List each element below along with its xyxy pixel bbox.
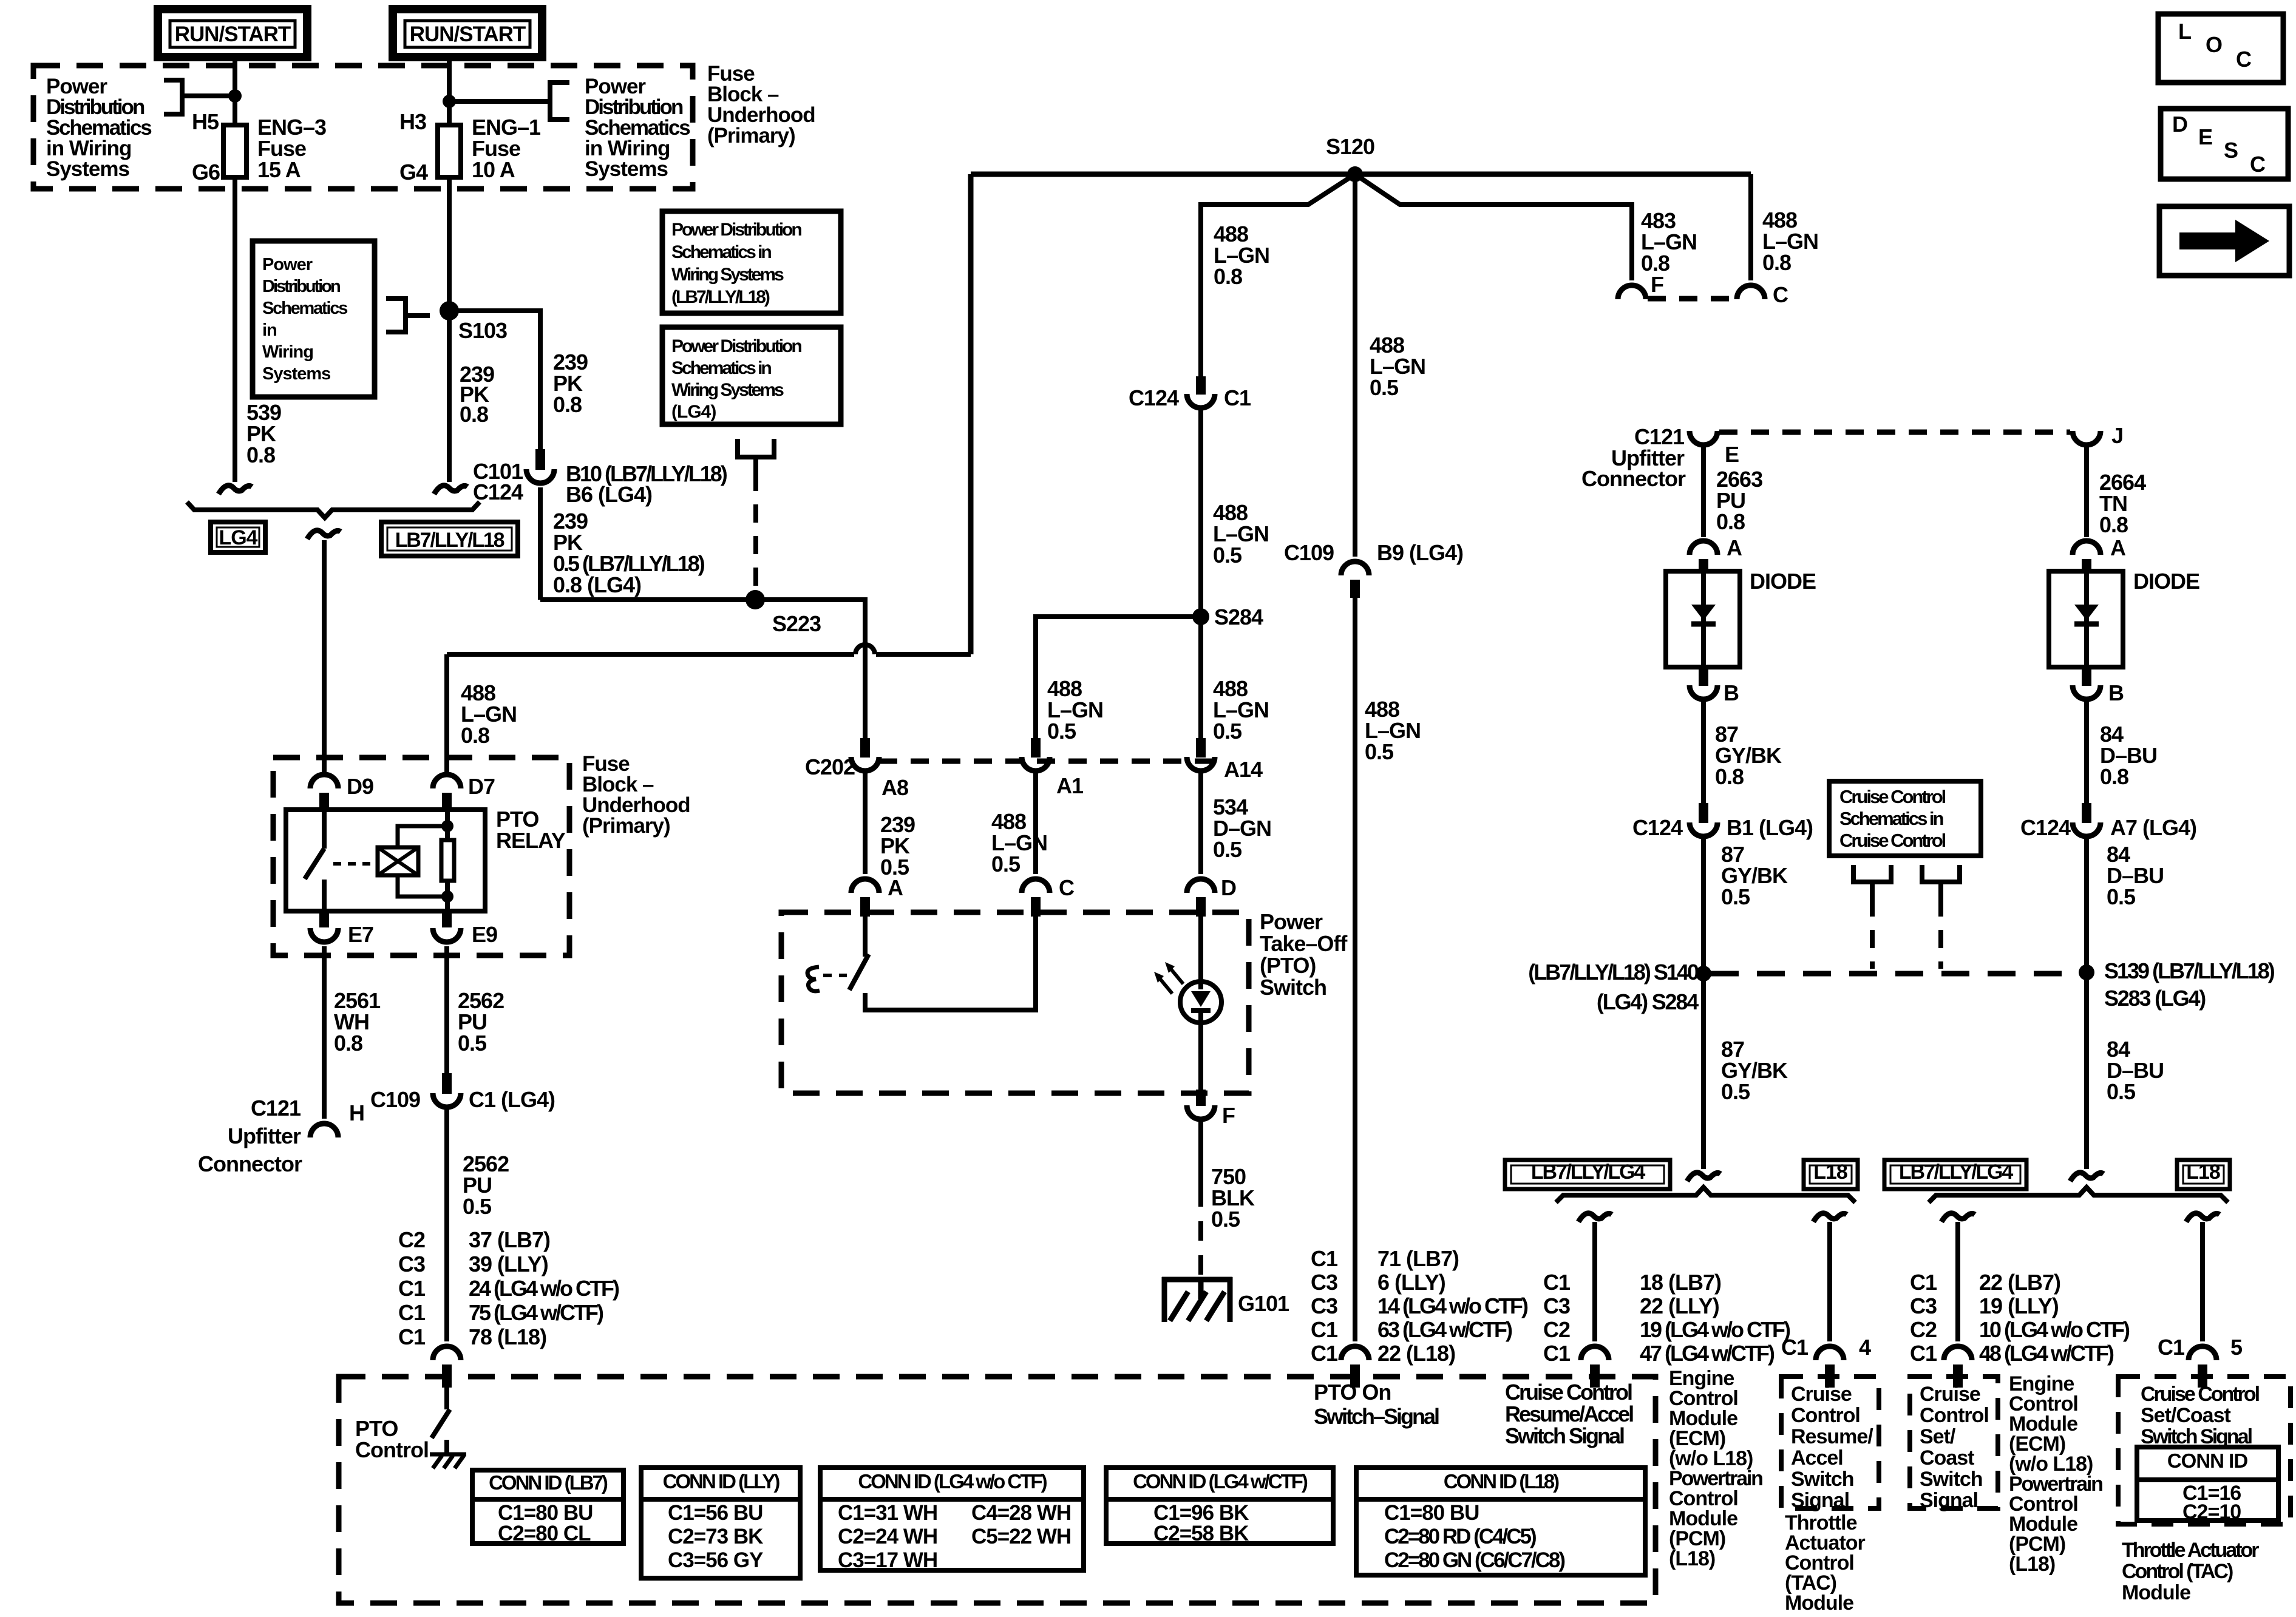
svg-text:C1 (LG4): C1 (LG4) xyxy=(469,1087,555,1112)
svg-text:Connector: Connector xyxy=(1581,466,1686,491)
svg-text:G6: G6 xyxy=(192,160,220,185)
svg-text:C2=10: C2=10 xyxy=(2182,1500,2241,1524)
wire set/coast to TAC pin xyxy=(2200,1222,2205,1341)
wire A1 to pin C xyxy=(1033,769,1038,874)
table CONN ID (LG4 w/CTF) xyxy=(1106,1468,1333,1544)
wire S120 to C124 C1 xyxy=(1201,174,1355,376)
svg-text:C2=80 GN (C6/C7/C8): C2=80 GN (C6/C7/C8) xyxy=(1384,1548,1564,1572)
svg-text:A14: A14 xyxy=(1224,757,1263,782)
svg-text:LB7/LLY/L18: LB7/LLY/L18 xyxy=(395,529,504,552)
svg-text:B6 (LG4): B6 (LG4) xyxy=(566,482,652,507)
svg-text:C: C xyxy=(2250,152,2266,177)
svg-text:RUN/START: RUN/START xyxy=(175,22,291,46)
svg-text:Cruise: Cruise xyxy=(1920,1383,1980,1406)
svg-text:78 (L18): 78 (L18) xyxy=(469,1324,546,1349)
svg-text:CONN ID: CONN ID xyxy=(2167,1449,2248,1472)
table CONN ID (LLY) xyxy=(641,1468,800,1578)
svg-text:0.8: 0.8 xyxy=(2100,764,2128,789)
svg-text:Wiring Systems: Wiring Systems xyxy=(671,380,784,400)
PTO switch actuation dashes xyxy=(823,974,847,977)
svg-text:F: F xyxy=(1651,272,1663,297)
svg-text:5: 5 xyxy=(2230,1335,2243,1360)
svg-text:CONN ID (LG4 w/CTF): CONN ID (LG4 w/CTF) xyxy=(1133,1470,1308,1493)
wire S120 riser loop xyxy=(876,652,971,657)
svg-text:S139 (LB7/LLY/L18): S139 (LB7/LLY/L18) xyxy=(2104,958,2275,983)
connector C109 pin C1 (LG4) xyxy=(442,1073,452,1094)
svg-text:C1: C1 xyxy=(1543,1270,1571,1295)
svg-text:C1: C1 xyxy=(1224,385,1251,410)
svg-text:Power Distribution: Power Distribution xyxy=(671,336,801,356)
svg-text:PTO On: PTO On xyxy=(1314,1380,1391,1405)
svg-text:22 (LB7): 22 (LB7) xyxy=(1979,1270,2060,1295)
svg-text:39 (LLY): 39 (LLY) xyxy=(469,1252,548,1276)
svg-text:10 (LG4 w/o CTF): 10 (LG4 w/o CTF) xyxy=(1979,1317,2130,1342)
svg-text:(L18): (L18) xyxy=(2009,1553,2055,1576)
svg-text:C124: C124 xyxy=(2020,815,2071,840)
connector PTO switch pin F xyxy=(1196,1090,1206,1106)
svg-text:Systems: Systems xyxy=(46,157,130,181)
svg-text:C3: C3 xyxy=(398,1252,425,1276)
svg-text:LB7/LLY/LG4: LB7/LLY/LG4 xyxy=(1531,1161,1645,1184)
connector pin D9 xyxy=(310,775,338,788)
svg-text:0.5: 0.5 xyxy=(1721,1079,1750,1104)
svg-text:47 (LG4 w/CTF): 47 (LG4 w/CTF) xyxy=(1640,1341,1775,1366)
svg-text:H3: H3 xyxy=(399,109,426,134)
connector C121 pin E xyxy=(1690,431,1717,445)
ground chassis (PTO control) xyxy=(430,1453,466,1457)
fuse ENG-1 10A xyxy=(438,125,461,177)
svg-text:C1: C1 xyxy=(398,1300,426,1325)
PTO control switch xyxy=(444,1388,449,1409)
nav box LOC xyxy=(2158,14,2283,83)
svg-text:D: D xyxy=(2172,112,2187,137)
svg-text:Switch Signal: Switch Signal xyxy=(1505,1423,1624,1448)
svg-text:(PTO): (PTO) xyxy=(1260,953,1316,978)
svg-text:C1: C1 xyxy=(1781,1335,1809,1360)
wire 87 GY/BK 0.5 to S140 xyxy=(1701,835,1706,974)
svg-text:C2=73 BK: C2=73 BK xyxy=(668,1525,763,1548)
node junction on ENG-1 feed xyxy=(443,95,456,108)
svg-text:Switch: Switch xyxy=(1920,1468,1983,1491)
wire 488 L-GN 0.5 to S284 xyxy=(1198,406,1203,617)
svg-text:Connector: Connector xyxy=(198,1151,302,1176)
svg-text:A: A xyxy=(2110,535,2126,560)
svg-text:Distribution: Distribution xyxy=(262,277,340,296)
svg-text:O: O xyxy=(2206,32,2222,57)
svg-text:E9: E9 xyxy=(472,922,497,947)
svg-text:0.8: 0.8 xyxy=(1762,250,1791,275)
svg-text:B: B xyxy=(2108,680,2124,705)
svg-text:0.8: 0.8 xyxy=(2099,512,2128,537)
wire 488 L-GN 0.8 to relay D7 xyxy=(444,654,449,775)
PTO switch actuator curl xyxy=(807,967,820,991)
wire ignition bus xyxy=(971,172,1751,177)
svg-text:E: E xyxy=(2198,124,2212,149)
svg-text:C3=17 WH: C3=17 WH xyxy=(838,1548,937,1572)
svg-text:A: A xyxy=(1727,535,1742,560)
svg-text:Resume/Accel: Resume/Accel xyxy=(1505,1402,1633,1426)
relay resistor xyxy=(445,812,450,840)
svg-text:(LG4) S284: (LG4) S284 xyxy=(1597,989,1699,1014)
svg-text:C1=31 WH: C1=31 WH xyxy=(838,1501,937,1525)
svg-text:Coast: Coast xyxy=(1920,1446,1974,1470)
PTO switch dashed box xyxy=(781,912,1249,1093)
connector pin E7 xyxy=(319,911,329,927)
fuse ENG-3 15A xyxy=(223,125,246,177)
svg-text:C1: C1 xyxy=(1311,1246,1338,1271)
svg-text:0.5: 0.5 xyxy=(1211,1207,1240,1232)
svg-text:22 (LLY): 22 (LLY) xyxy=(1640,1293,1719,1318)
svg-text:C1: C1 xyxy=(1311,1317,1338,1342)
svg-text:Cruise Control: Cruise Control xyxy=(1839,830,1946,851)
svg-text:J: J xyxy=(2111,423,2123,448)
svg-text:L18: L18 xyxy=(2186,1161,2220,1184)
svg-text:Module: Module xyxy=(1785,1592,1853,1615)
wire 87 GY/BK 0.8 xyxy=(1701,697,1706,803)
relay PTO RELAY box xyxy=(286,810,485,911)
svg-text:C124: C124 xyxy=(473,480,523,504)
svg-text:19 (LLY): 19 (LLY) xyxy=(1979,1293,2059,1318)
svg-text:C202: C202 xyxy=(805,754,855,779)
connector C202 A14 xyxy=(1196,738,1206,758)
svg-text:0.8: 0.8 xyxy=(1716,509,1745,534)
connector C109 B9 xyxy=(1341,561,1369,575)
svg-text:0.5: 0.5 xyxy=(458,1031,487,1056)
reference bracket to ENG-1 feed xyxy=(550,83,569,120)
node relay coil top xyxy=(441,820,453,832)
wire A14 to pin D xyxy=(1198,769,1203,874)
svg-text:Power: Power xyxy=(262,255,313,274)
svg-text:0.5: 0.5 xyxy=(1721,884,1750,909)
svg-text:C3: C3 xyxy=(1311,1293,1337,1318)
svg-text:Switch–Signal: Switch–Signal xyxy=(1314,1404,1439,1429)
svg-text:10 A: 10 A xyxy=(472,157,515,182)
connector C124 C1 xyxy=(1196,376,1206,395)
svg-text:A1: A1 xyxy=(1056,773,1084,798)
svg-text:Accel: Accel xyxy=(1791,1446,1843,1470)
wire 2562 PU 0.5 xyxy=(444,946,449,1073)
svg-text:C1: C1 xyxy=(2158,1335,2185,1360)
label LG4 box xyxy=(211,522,265,552)
svg-text:Systems: Systems xyxy=(262,364,330,384)
splice on set/coast wire xyxy=(2070,1173,2104,1181)
node S223 xyxy=(746,590,765,609)
reference bracket to S103 feed (left) xyxy=(164,80,182,114)
svg-text:DIODE: DIODE xyxy=(2133,569,2199,594)
svg-text:C1: C1 xyxy=(398,1276,426,1301)
svg-text:0.5: 0.5 xyxy=(2107,884,2136,909)
module TAC resume dashed box xyxy=(1781,1377,1879,1508)
wire S284 to C202 A14 xyxy=(1198,617,1203,738)
wire 488 L-GN 0.5 to PTO On signal xyxy=(1353,598,1357,1341)
splice set/coast L18 wire xyxy=(2186,1213,2220,1222)
splice resume LB7 wire xyxy=(1578,1213,1612,1222)
fuse block - underhood dashed box (top) xyxy=(33,66,693,189)
connector diode pin A (left) xyxy=(1690,541,1717,555)
svg-text:E7: E7 xyxy=(348,922,373,947)
wire 84 D-BU 0.5 to modules xyxy=(2084,972,2089,1169)
svg-text:(Primary): (Primary) xyxy=(582,814,670,838)
svg-text:A8: A8 xyxy=(881,775,908,800)
relay coil xyxy=(378,847,418,875)
connector C121 pin H xyxy=(310,1124,338,1137)
label LB7/LLY/LG4 box (set/coast) xyxy=(1884,1160,2026,1189)
connector PTO switch pin C xyxy=(1022,879,1050,893)
svg-text:CONN ID (L18): CONN ID (L18) xyxy=(1444,1470,1559,1493)
svg-text:0.8 (LG4): 0.8 (LG4) xyxy=(553,572,641,597)
wire 750 BLK 0.5 to ground xyxy=(1198,1117,1203,1187)
label LB7/LLY/LG4 box (resume) xyxy=(1505,1160,1670,1189)
wire 84 D-BU 0.8 xyxy=(2084,697,2089,803)
connector C202 A8 xyxy=(860,738,870,758)
svg-text:C2=80 RD (C4/C5): C2=80 RD (C4/C5) xyxy=(1384,1525,1536,1548)
svg-text:D: D xyxy=(1221,875,1236,900)
wire 2562 PU 0.5 to PTO control xyxy=(444,1105,449,1341)
diode module (left) xyxy=(1666,571,1740,667)
svg-text:S284: S284 xyxy=(1214,605,1263,629)
connector diode pin A (right) xyxy=(2073,541,2101,555)
connector C101/C124 splice (right) xyxy=(434,486,467,494)
svg-text:0.5: 0.5 xyxy=(2107,1079,2136,1104)
reference bracket cruise right xyxy=(1922,865,1960,882)
table CONN ID (TAC) xyxy=(2137,1447,2278,1520)
svg-text:C3=56 GY: C3=56 GY xyxy=(668,1548,763,1572)
svg-text:Wiring: Wiring xyxy=(262,342,313,362)
svg-text:Power: Power xyxy=(1260,909,1323,934)
connector PTO switch pin A xyxy=(851,879,879,893)
connector pin PTO On into ECM xyxy=(1341,1346,1369,1360)
dashed jumper F to C xyxy=(1648,296,1735,302)
svg-text:63 (LG4 w/CTF): 63 (LG4 w/CTF) xyxy=(1377,1317,1512,1342)
svg-text:S103: S103 xyxy=(458,318,507,343)
svg-text:RUN/START: RUN/START xyxy=(410,22,526,46)
svg-text:Cruise Control: Cruise Control xyxy=(1505,1380,1632,1405)
svg-text:Set/: Set/ xyxy=(1920,1425,1956,1448)
svg-text:0.8: 0.8 xyxy=(1715,764,1744,789)
svg-text:CONN ID (LG4 w/o CTF): CONN ID (LG4 w/o CTF) xyxy=(858,1470,1047,1493)
svg-text:24 (LG4 w/o CTF): 24 (LG4 w/o CTF) xyxy=(469,1276,619,1301)
svg-text:(L18): (L18) xyxy=(1669,1547,1715,1570)
svg-text:C1: C1 xyxy=(1311,1341,1338,1366)
svg-text:B9 (LG4): B9 (LG4) xyxy=(1377,540,1463,565)
wire S120 to C121 F xyxy=(1355,174,1632,280)
dashed jumper E to J xyxy=(1719,430,2070,435)
node S103 xyxy=(440,301,459,320)
svg-text:0.8: 0.8 xyxy=(461,723,489,748)
svg-text:C: C xyxy=(1059,875,1075,900)
wire A8 to switch xyxy=(863,769,868,874)
svg-text:RELAY: RELAY xyxy=(496,828,566,853)
label LB7/LLY/L18 box xyxy=(381,522,518,556)
svg-text:Control: Control xyxy=(1920,1404,1989,1427)
wire S120 to C109 B9 xyxy=(1353,174,1357,557)
connector C101 B10 pin xyxy=(535,449,545,470)
connector pin cruise resume into ECM xyxy=(1581,1346,1609,1360)
svg-text:Cruise Control: Cruise Control xyxy=(2141,1383,2260,1406)
wire 239 PK 0.8 S103 to C101/C124 xyxy=(447,311,452,482)
splice resume L18 wire xyxy=(1813,1213,1847,1222)
svg-text:C: C xyxy=(1773,282,1788,307)
svg-text:Control: Control xyxy=(355,1437,429,1462)
svg-text:C124: C124 xyxy=(1632,815,1683,840)
svg-text:Control: Control xyxy=(1791,1404,1860,1427)
svg-text:B1 (LG4): B1 (LG4) xyxy=(1727,815,1813,840)
table CONN ID (L18) xyxy=(1356,1468,1645,1575)
svg-text:C2: C2 xyxy=(1910,1317,1937,1342)
fuse block - underhood dashed box (relay) xyxy=(273,758,569,955)
svg-text:Schematics in: Schematics in xyxy=(671,358,771,378)
table CONN ID (LG4 w/o CTF) xyxy=(820,1468,1084,1570)
svg-text:C1: C1 xyxy=(398,1324,426,1349)
connector C121 pin F xyxy=(1618,285,1646,299)
svg-text:(LB7/LLY/L18) S140: (LB7/LLY/L18) S140 xyxy=(1528,960,1699,985)
wire 84 D-BU 0.5 to S139 xyxy=(2084,835,2089,972)
svg-text:0.5: 0.5 xyxy=(1370,375,1399,400)
wire resume to TAC pin xyxy=(1827,1222,1832,1341)
connector C202 A1 xyxy=(1031,738,1041,758)
svg-text:S283 (LG4): S283 (LG4) xyxy=(2104,986,2206,1011)
svg-text:4: 4 xyxy=(1859,1335,1871,1360)
wire 2561 WH 0.8 xyxy=(322,946,327,1119)
svg-text:C1=56 BU: C1=56 BU xyxy=(668,1501,763,1525)
svg-text:CONN ID (LLY): CONN ID (LLY) xyxy=(663,1470,780,1493)
svg-text:Schematics: Schematics xyxy=(262,299,347,318)
connector C124 B1 (LG4) xyxy=(1699,803,1708,823)
svg-text:0.5: 0.5 xyxy=(1047,719,1076,744)
svg-text:(LB7/LLY/L18): (LB7/LLY/L18) xyxy=(671,287,770,307)
relay switch contact xyxy=(322,812,327,849)
svg-text:L18: L18 xyxy=(1813,1161,1847,1184)
wire S284 branch to C202 A1 xyxy=(1036,617,1201,738)
svg-text:C2=80 CL: C2=80 CL xyxy=(498,1522,591,1545)
svg-text:A: A xyxy=(888,875,903,900)
svg-text:S: S xyxy=(2224,138,2238,163)
reference bracket to S103 xyxy=(386,299,406,332)
svg-text:G101: G101 xyxy=(1238,1291,1289,1316)
svg-text:H: H xyxy=(349,1100,364,1125)
svg-text:C109: C109 xyxy=(1284,540,1334,565)
svg-text:Set/Coast: Set/Coast xyxy=(2141,1404,2230,1427)
svg-text:E: E xyxy=(1725,442,1739,467)
svg-text:Take–Off: Take–Off xyxy=(1260,931,1348,956)
svg-text:CONN ID (LB7): CONN ID (LB7) xyxy=(489,1471,608,1494)
svg-text:Switch: Switch xyxy=(1791,1468,1854,1491)
svg-text:C2: C2 xyxy=(398,1227,425,1252)
svg-text:C3: C3 xyxy=(1543,1293,1570,1318)
connector C121 pin C xyxy=(1737,285,1765,299)
wire brace to relay D9 xyxy=(322,540,327,775)
label Cruise Control Schematics box xyxy=(1829,781,1981,856)
wire set/coast to ECM pins xyxy=(1955,1222,1960,1341)
svg-text:Throttle Actuator: Throttle Actuator xyxy=(2122,1539,2259,1562)
svg-text:A7 (LG4): A7 (LG4) xyxy=(2110,815,2196,840)
node S140/S284 xyxy=(1696,966,1711,981)
svg-text:Resume/: Resume/ xyxy=(1791,1425,1873,1448)
svg-text:C1: C1 xyxy=(1543,1341,1571,1366)
connector pin E9 xyxy=(442,911,452,927)
svg-text:0.8: 0.8 xyxy=(1214,264,1242,289)
node RUN/START (left feed) xyxy=(158,9,307,57)
wire resume to ECM pins xyxy=(1592,1222,1597,1341)
svg-text:Wiring Systems: Wiring Systems xyxy=(671,265,784,285)
svg-text:Systems: Systems xyxy=(585,157,668,181)
svg-text:0.5: 0.5 xyxy=(463,1194,492,1219)
svg-text:G4: G4 xyxy=(399,160,428,185)
wire 87 GY/BK 0.5 to modules xyxy=(1701,974,1706,1169)
wire indicator to pin F xyxy=(1198,1023,1203,1090)
svg-text:C1: C1 xyxy=(1910,1341,1937,1366)
svg-text:LG4: LG4 xyxy=(219,526,257,549)
svg-text:Control (TAC): Control (TAC) xyxy=(2122,1560,2233,1583)
svg-text:C109: C109 xyxy=(370,1087,420,1112)
connector C121 pin J xyxy=(2073,431,2101,445)
svg-text:19 (LG4 w/o CTF): 19 (LG4 w/o CTF) xyxy=(1640,1317,1790,1342)
wire C121 J to diode A xyxy=(2084,443,2089,537)
svg-text:18 (LB7): 18 (LB7) xyxy=(1640,1270,1721,1295)
wire S103 branch to C101 B10 xyxy=(449,311,540,449)
svg-text:DIODE: DIODE xyxy=(1750,569,1816,594)
splice below brace xyxy=(307,531,341,539)
svg-text:0.5: 0.5 xyxy=(1213,837,1242,862)
svg-text:0.8: 0.8 xyxy=(334,1031,362,1056)
svg-text:48 (LG4 w/CTF): 48 (LG4 w/CTF) xyxy=(1979,1341,2114,1366)
svg-text:D9: D9 xyxy=(347,774,373,799)
reference bracket cruise left xyxy=(1853,865,1891,882)
svg-text:C2=24 WH: C2=24 WH xyxy=(838,1525,937,1548)
svg-text:Upfitter: Upfitter xyxy=(228,1124,301,1148)
node relay coil bottom xyxy=(441,890,453,903)
svg-text:Signal: Signal xyxy=(1791,1489,1849,1512)
svg-text:Switch: Switch xyxy=(1260,975,1326,1000)
svg-text:C124: C124 xyxy=(1129,385,1179,410)
wire RUN/START left to fuse ENG-3 xyxy=(233,57,237,125)
svg-text:C1: C1 xyxy=(1910,1270,1937,1295)
svg-text:C5=22 WH: C5=22 WH xyxy=(971,1525,1071,1548)
svg-text:S120: S120 xyxy=(1326,134,1374,159)
svg-text:C2=58 BK: C2=58 BK xyxy=(1153,1522,1249,1545)
svg-text:71 (LB7): 71 (LB7) xyxy=(1377,1246,1459,1271)
table CONN ID (LB7) xyxy=(472,1470,623,1544)
module TAC set/coast dashed box xyxy=(2118,1377,2291,1524)
relay actuation dashed link xyxy=(333,862,375,866)
dashed connector line C202 xyxy=(879,759,1213,764)
connector C101/C124 splice (left) xyxy=(219,486,252,494)
diode module (right) xyxy=(2049,571,2123,667)
svg-text:L: L xyxy=(2178,19,2191,44)
svg-text:C1=80 BU: C1=80 BU xyxy=(1384,1501,1479,1525)
svg-text:0.5: 0.5 xyxy=(991,852,1021,876)
splice on resume wire xyxy=(1687,1173,1720,1181)
brace set/coast split xyxy=(1929,1187,2228,1202)
svg-text:Cruise: Cruise xyxy=(1791,1383,1852,1406)
svg-text:0.5: 0.5 xyxy=(1365,739,1394,764)
wire 239 PK to S223 xyxy=(538,487,543,600)
dashed wire S140 to S139 xyxy=(1711,971,2079,977)
svg-text:Module: Module xyxy=(2122,1581,2190,1604)
svg-text:C121: C121 xyxy=(251,1096,301,1120)
svg-text:14 (LG4 w/o CTF): 14 (LG4 w/o CTF) xyxy=(1377,1293,1528,1318)
connector C124 A7 (LG4) xyxy=(2082,803,2091,823)
svg-text:0.8: 0.8 xyxy=(460,402,488,427)
svg-text:H5: H5 xyxy=(192,109,219,134)
svg-text:Signal: Signal xyxy=(1920,1489,1978,1512)
PTO switch output wire to pin C xyxy=(865,917,1036,1010)
label Power Distribution Schematics box (middle) xyxy=(253,241,375,397)
node S284 xyxy=(1192,608,1209,625)
svg-text:Power Distribution: Power Distribution xyxy=(671,220,801,240)
nav box arrow xyxy=(2159,206,2289,276)
svg-text:C3: C3 xyxy=(1311,1270,1337,1295)
